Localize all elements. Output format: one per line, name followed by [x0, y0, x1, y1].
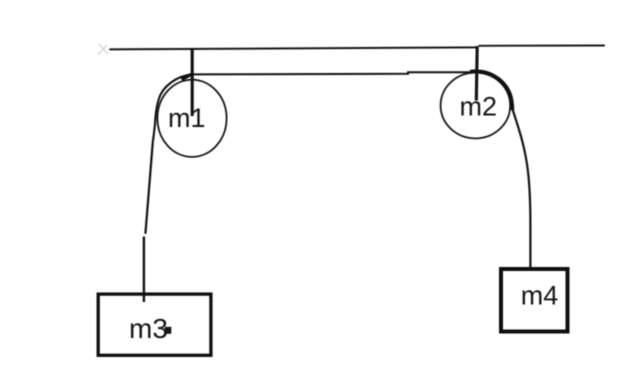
- support rod of pulley m2: [475, 46, 479, 101]
- rope between pulleys: [193, 72, 478, 74]
- svg-text:m1: m1: [168, 103, 206, 133]
- small square dot after m3: [165, 327, 172, 334]
- rope into mass m3 (vertical part): [143, 237, 145, 303]
- pulley m1 wheel: [157, 80, 226, 157]
- rope from pulley m2 down to mass m4: [512, 108, 530, 268]
- ceiling line right segment: [479, 45, 605, 47]
- rope wrap over pulley m2 (thick arc): [470, 71, 512, 110]
- mass m3 box: [98, 294, 211, 355]
- svg-text:m3: m3: [129, 313, 168, 344]
- pulley m2 wheel: [441, 73, 511, 139]
- support rod of pulley m1: [191, 49, 194, 117]
- mass m4 box: [501, 269, 568, 332]
- rope wrap over pulley m1: [153, 74, 193, 142]
- ceiling line left segment: [109, 47, 477, 49]
- svg-text:m2: m2: [460, 91, 498, 121]
- rope junction stub at pulley m1: [182, 74, 192, 79]
- svg-text:m4: m4: [521, 281, 559, 311]
- rope from pulley m1 down (slanted part): [145, 142, 152, 234]
- faint smudge artifact at ceiling left end: [98, 44, 108, 55]
